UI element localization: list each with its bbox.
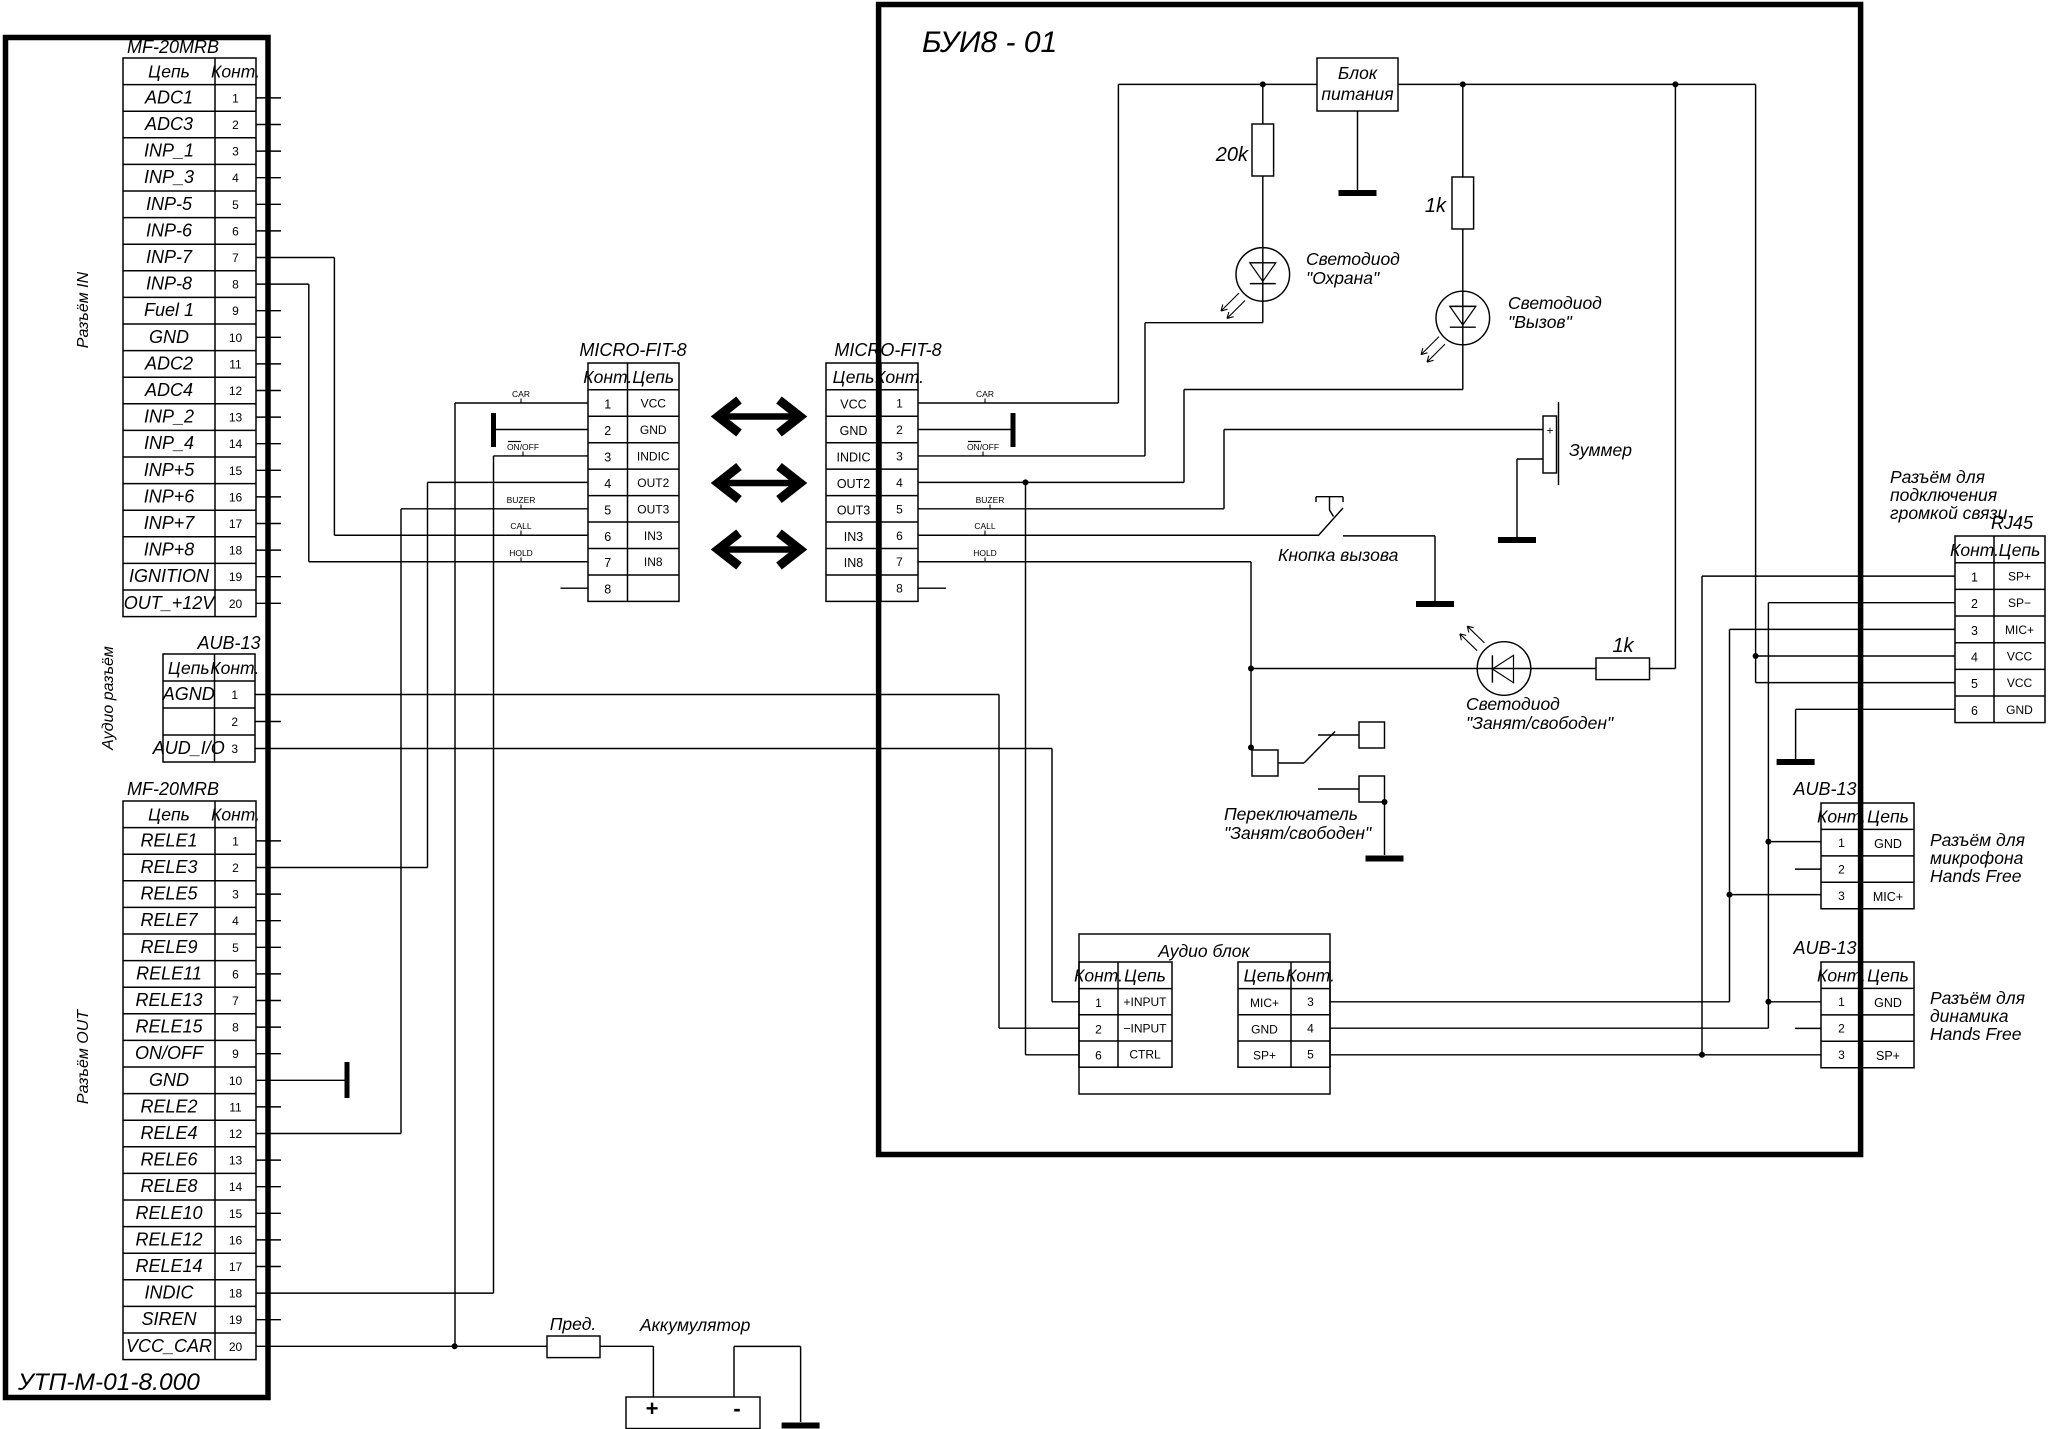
svg-text:GND: GND xyxy=(149,1070,189,1090)
svg-text:INP+6: INP+6 xyxy=(144,486,196,506)
svg-text:1: 1 xyxy=(1838,836,1845,850)
net SP-/GND: RJ45 pin2 - mic pin1 - speaker pin1 - audio block GND xyxy=(1330,603,1955,1028)
label BUZER (left) xyxy=(507,495,536,509)
svg-text:INDIC: INDIC xyxy=(836,450,870,464)
svg-text:11: 11 xyxy=(229,1100,242,1114)
wire CAR/VCC: pin1 right MICRO-FIT up to power rail xyxy=(918,84,1317,403)
stub pin8 right MICRO-FIT xyxy=(918,587,946,589)
net SP+: audio block pin5 - RJ45 pin1 - speaker pin3 xyxy=(1330,576,1955,1055)
wire OUT2: pin4 right MICRO-FIT to LED Вызов cathode xyxy=(918,345,1463,482)
rotated label Разъём IN xyxy=(75,271,92,348)
junction power rail / 1k Вызов xyxy=(1460,81,1466,87)
svg-text:8: 8 xyxy=(232,1021,239,1035)
ground for RJ45 GND xyxy=(1777,759,1815,765)
power rail from Блок питания to VCC vertical xyxy=(1398,83,1756,85)
svg-text:Конт.: Конт. xyxy=(875,367,924,387)
svg-text:1: 1 xyxy=(896,397,903,411)
svg-text:2: 2 xyxy=(896,423,903,437)
label HOLD (right) xyxy=(973,548,997,562)
svg-text:6: 6 xyxy=(232,224,239,238)
svg-text:INP+5: INP+5 xyxy=(144,460,196,480)
svg-text:RELE10: RELE10 xyxy=(135,1203,202,1223)
resistor 20k xyxy=(1215,84,1274,247)
svg-text:RELE13: RELE13 xyxy=(135,990,202,1010)
svg-text:Конт.: Конт. xyxy=(583,367,632,387)
svg-text:1: 1 xyxy=(1971,571,1978,585)
svg-text:7: 7 xyxy=(896,555,903,569)
svg-text:"Занят/свободен": "Занят/свободен" xyxy=(1224,823,1372,843)
junction HOLD / LED Занят wire xyxy=(1248,666,1254,672)
svg-text:Разъём для: Разъём для xyxy=(1930,830,2025,850)
svg-text:18: 18 xyxy=(229,544,243,558)
ground below call button xyxy=(1416,601,1454,607)
wire button to ground xyxy=(1343,536,1435,601)
svg-text:Зуммер: Зуммер xyxy=(1569,440,1632,460)
svg-text:CALL: CALL xyxy=(510,521,532,531)
svg-text:OUT2: OUT2 xyxy=(637,476,669,490)
svg-text:12: 12 xyxy=(229,384,243,398)
svg-text:7: 7 xyxy=(232,994,239,1008)
svg-text:5: 5 xyxy=(1307,1048,1314,1062)
label Светодиод Вызов xyxy=(1508,293,1602,332)
svg-text:CALL: CALL xyxy=(974,521,996,531)
pin stubs of MF-20MRB OUT connector xyxy=(256,841,281,1320)
svg-text:RELE8: RELE8 xyxy=(140,1176,197,1196)
wire BUZER: pin5 left MICRO-FIT down to RELE4 pin12 OUT xyxy=(256,509,588,1134)
svg-text:INP_4: INP_4 xyxy=(144,433,194,453)
wire ON/OFF: pin3 left MICRO-FIT down to INDIC pin18 OUT xyxy=(256,456,588,1293)
svg-text:CAR: CAR xyxy=(512,389,530,399)
svg-text:19: 19 xyxy=(229,570,243,584)
wire RJ45 pin6 GND to ground xyxy=(1796,709,1955,759)
svg-text:4: 4 xyxy=(1971,651,1978,665)
net VCC to RJ45 pins 4,5 xyxy=(1756,84,1955,682)
svg-text:2: 2 xyxy=(232,118,239,132)
svg-text:INP_1: INP_1 xyxy=(144,141,194,161)
svg-text:MICRO-FIT-8: MICRO-FIT-8 xyxy=(834,340,941,360)
svg-text:4: 4 xyxy=(604,477,611,491)
svg-text:RELE15: RELE15 xyxy=(135,1017,203,1037)
svg-text:CAR: CAR xyxy=(976,389,994,399)
svg-text:6: 6 xyxy=(604,530,611,544)
wire buzzer to ground xyxy=(1517,459,1543,537)
svg-text:INP-7: INP-7 xyxy=(146,247,193,267)
svg-text:SP+: SP+ xyxy=(2008,570,2031,584)
svg-text:Цепь: Цепь xyxy=(1999,540,2041,560)
svg-text:3: 3 xyxy=(604,450,611,464)
svg-text:OUT2: OUT2 xyxy=(837,477,870,491)
svg-text:9: 9 xyxy=(232,304,239,318)
svg-text:18: 18 xyxy=(229,1287,243,1301)
svg-text:GND: GND xyxy=(1251,1022,1278,1036)
junction OUT2/CTRL xyxy=(1023,479,1029,485)
audio block right table pins 3,4,5 xyxy=(1238,962,1335,1067)
svg-text:3: 3 xyxy=(1971,624,1978,638)
pin stubs of MF-20MRB IN connector xyxy=(256,98,281,603)
wire HOLD: pin7 left MICRO-FIT up to INP-8 pin8 IN xyxy=(256,284,588,562)
push-button Кнопка вызова xyxy=(1316,497,1343,536)
connector MICRO-FIT-8 (right), pins 1-8 xyxy=(826,340,942,601)
svg-text:УТП-М-01-8.000: УТП-М-01-8.000 xyxy=(17,1369,200,1396)
svg-text:SP+: SP+ xyxy=(1253,1049,1276,1063)
svg-text:Аудио блок: Аудио блок xyxy=(1157,941,1250,961)
svg-text:3: 3 xyxy=(1838,1048,1845,1062)
svg-text:20: 20 xyxy=(229,597,243,611)
svg-text:MF-20MRB: MF-20MRB xyxy=(127,37,219,57)
power supply Блок питания xyxy=(1317,58,1398,111)
junction SP- speaker pin1 xyxy=(1765,999,1771,1005)
svg-text:2: 2 xyxy=(232,861,239,875)
connector MF-20MRB (Разъём IN), pins 1-20 xyxy=(123,37,260,617)
wire LED Занят/свободен anode xyxy=(1251,668,1477,670)
svg-text:1: 1 xyxy=(231,688,238,702)
svg-text:Разъём для: Разъём для xyxy=(1930,988,2025,1008)
svg-text:12: 12 xyxy=(229,1127,243,1141)
label HOLD (left) xyxy=(509,548,533,562)
svg-text:2: 2 xyxy=(1971,597,1978,611)
svg-text:БУИ8 - 01: БУИ8 - 01 xyxy=(922,26,1057,59)
svg-text:ON/OFF: ON/OFF xyxy=(507,442,539,452)
svg-text:"Охрана": "Охрана" xyxy=(1306,268,1380,288)
svg-text:3: 3 xyxy=(232,888,239,902)
svg-text:IN3: IN3 xyxy=(844,530,864,544)
wire power block to ground xyxy=(1357,111,1359,190)
svg-text:5: 5 xyxy=(604,503,611,517)
terminal bar on GND pin2 (left MICRO-FIT) xyxy=(491,413,588,447)
rotated label Разъём OUT xyxy=(75,1009,92,1104)
wire fuse to battery + xyxy=(600,1346,653,1397)
svg-text:8: 8 xyxy=(232,278,239,292)
label ON/OFF (right) with overline xyxy=(967,442,999,457)
svg-text:Конт.: Конт. xyxy=(210,658,259,678)
svg-text:BUZER: BUZER xyxy=(507,495,536,505)
connector AUB-13 динамик Hands Free xyxy=(1792,938,1914,1068)
wire ON/OFF INDIC: pin3 right MICRO-FIT up to LED Охрана cathode xyxy=(918,301,1263,456)
svg-text:5: 5 xyxy=(232,198,239,212)
svg-text:INP-8: INP-8 xyxy=(146,274,192,294)
svg-text:ADC3: ADC3 xyxy=(144,114,193,134)
svg-text:Аккумулятор: Аккумулятор xyxy=(639,1315,751,1335)
junction power rail / 1k Занят xyxy=(1672,81,1678,87)
svg-text:RELE14: RELE14 xyxy=(135,1256,202,1276)
wire CALL: pin6 right MICRO-FIT to call button xyxy=(918,534,1318,536)
svg-text:6: 6 xyxy=(896,529,903,543)
svg-text:IGNITION: IGNITION xyxy=(129,566,210,586)
junction switch lower contact xyxy=(1382,799,1388,805)
svg-text:Конт.: Конт. xyxy=(1817,806,1866,826)
svg-text:микрофона: микрофона xyxy=(1930,848,2024,868)
label Разъём для микрофона Hands Free xyxy=(1930,830,2025,886)
svg-text:9: 9 xyxy=(232,1047,239,1061)
wire CAR: INP... VCC pin1 left MICRO-FIT to vertical xyxy=(455,403,588,1346)
label CALL (left) xyxy=(510,521,532,536)
svg-text:Конт.: Конт. xyxy=(1074,966,1123,986)
wire BUZER: pin5 right MICRO-FIT to buzzer + xyxy=(918,430,1543,509)
ground for battery xyxy=(782,1423,820,1429)
svg-text:MICRO-FIT-8: MICRO-FIT-8 xyxy=(579,340,686,360)
wire battery - to ground xyxy=(734,1346,801,1422)
svg-text:15: 15 xyxy=(229,1207,243,1221)
stub pin2 of speaker AUB-13 xyxy=(1795,1027,1821,1029)
svg-text:Конт.: Конт. xyxy=(1286,966,1335,986)
svg-text:2: 2 xyxy=(604,424,611,438)
svg-text:INP_3: INP_3 xyxy=(144,167,194,187)
svg-text:OUT3: OUT3 xyxy=(837,503,870,517)
svg-text:6: 6 xyxy=(232,967,239,981)
svg-text:10: 10 xyxy=(229,331,243,345)
svg-text:питания: питания xyxy=(1321,84,1393,104)
svg-text:3: 3 xyxy=(1307,995,1314,1009)
svg-text:RELE12: RELE12 xyxy=(135,1229,202,1249)
label Светодиод Охрана xyxy=(1306,249,1400,288)
svg-text:SP−: SP− xyxy=(2008,596,2031,610)
svg-text:HOLD: HOLD xyxy=(973,548,997,558)
label Зуммер xyxy=(1569,440,1632,460)
svg-text:GND: GND xyxy=(2006,703,2033,717)
connector MF-20MRB (Разъём OUT), pins 1-20 xyxy=(123,779,260,1360)
svg-text:5: 5 xyxy=(896,502,903,516)
battery Аккумулятор xyxy=(626,1315,760,1429)
svg-text:CTRL: CTRL xyxy=(1129,1048,1161,1062)
net MIC+: RJ45 pin3 - mic pin3 - audio block MIC+ xyxy=(1330,629,1955,1001)
svg-text:RELE9: RELE9 xyxy=(140,937,197,957)
svg-text:4: 4 xyxy=(232,914,239,928)
svg-text:SIREN: SIREN xyxy=(141,1309,197,1329)
stub pin2 of microphone AUB-13 xyxy=(1795,868,1821,870)
svg-text:17: 17 xyxy=(229,517,243,531)
svg-text:8: 8 xyxy=(896,582,903,596)
svg-text:19: 19 xyxy=(229,1313,243,1327)
svg-text:6: 6 xyxy=(1095,1049,1102,1063)
svg-text:Цепь: Цепь xyxy=(148,805,190,825)
svg-text:INDIC: INDIC xyxy=(145,1283,195,1303)
svg-text:GND: GND xyxy=(640,423,667,437)
svg-text:4: 4 xyxy=(232,171,239,185)
svg-text:5: 5 xyxy=(232,941,239,955)
svg-text:8: 8 xyxy=(604,583,611,597)
svg-text:Конт.: Конт. xyxy=(211,805,260,825)
fuse Пред. xyxy=(547,1314,600,1358)
ground below switch xyxy=(1366,856,1404,862)
svg-text:Аудио разъём: Аудио разъём xyxy=(100,646,117,751)
svg-text:ON/OFF: ON/OFF xyxy=(135,1043,204,1063)
svg-text:"Вызов": "Вызов" xyxy=(1508,312,1573,332)
svg-text:11: 11 xyxy=(229,357,242,371)
svg-text:Цепь: Цепь xyxy=(1244,966,1286,986)
svg-text:MIC+: MIC+ xyxy=(2005,623,2034,637)
svg-text:VCC: VCC xyxy=(840,398,866,412)
svg-text:7: 7 xyxy=(232,251,239,265)
svg-text:BUZER: BUZER xyxy=(976,495,1005,505)
audio block left table pins 1,2,6 xyxy=(1074,962,1172,1067)
audio block Аудио блок xyxy=(1079,934,1330,1094)
net VCC_CAR: OUT pin20 - fuse - battery xyxy=(256,1345,547,1347)
svg-text:1: 1 xyxy=(1095,996,1102,1010)
svg-text:20: 20 xyxy=(229,1340,243,1354)
wire CALL: pin6 left MICRO-FIT up to INP-7 pin7 IN xyxy=(256,258,588,536)
svg-text:RELE6: RELE6 xyxy=(140,1150,198,1170)
svg-text:Цепь: Цепь xyxy=(632,367,674,387)
label Кнопка вызова xyxy=(1278,545,1399,565)
svg-text:Конт.: Конт. xyxy=(211,62,260,82)
svg-text:IN3: IN3 xyxy=(644,529,663,543)
svg-text:3: 3 xyxy=(896,449,903,463)
svg-text:VCC: VCC xyxy=(641,397,667,411)
svg-text:RELE2: RELE2 xyxy=(140,1096,197,1116)
svg-text:4: 4 xyxy=(1307,1021,1314,1035)
svg-text:OUT3: OUT3 xyxy=(637,502,669,516)
junction power rail / 20k xyxy=(1260,81,1266,87)
svg-text:громкой связи: громкой связи xyxy=(1890,503,2008,523)
svg-text:GND: GND xyxy=(840,424,868,438)
svg-text:3: 3 xyxy=(231,742,238,756)
svg-text:14: 14 xyxy=(229,437,243,451)
LED Светодиод Охрана xyxy=(1221,248,1290,319)
svg-text:VCC_CAR: VCC_CAR xyxy=(126,1336,212,1356)
svg-text:Переключатель: Переключатель xyxy=(1224,804,1358,824)
LED Светодиод Занят/свободен xyxy=(1460,626,1531,695)
label Светодиод Занят/свободен xyxy=(1466,694,1614,733)
rotated label Аудио разъём xyxy=(100,646,117,751)
switch Переключатель Занят/свободен xyxy=(1252,722,1385,802)
wire switch to ground xyxy=(1384,802,1386,855)
svg-text:AUD_I/O: AUD_I/O xyxy=(152,738,225,758)
svg-text:1: 1 xyxy=(1838,995,1845,1009)
svg-text:+: + xyxy=(1547,426,1554,438)
svg-text:13: 13 xyxy=(229,1154,243,1168)
svg-text:Цепь: Цепь xyxy=(148,62,190,82)
connector MICRO-FIT-8 (left), pins 1-8 xyxy=(579,340,686,601)
svg-text:6: 6 xyxy=(1971,704,1978,718)
svg-text:Конт.: Конт. xyxy=(1950,540,1999,560)
svg-text:IN8: IN8 xyxy=(644,555,663,569)
junction VCC_CAR / CAR vertical xyxy=(452,1343,458,1349)
svg-text:2: 2 xyxy=(1095,1022,1102,1036)
svg-text:AGND: AGND xyxy=(162,684,215,704)
svg-text:VCC: VCC xyxy=(2007,650,2033,664)
svg-text:Цепь: Цепь xyxy=(1867,965,1909,985)
svg-text:14: 14 xyxy=(229,1180,243,1194)
buzzer Зуммер xyxy=(1543,402,1559,485)
terminal bar on GND pin2 (right MICRO-FIT) xyxy=(918,413,1016,447)
junction VCC RJ45 pin4 xyxy=(1753,653,1759,659)
svg-text:13: 13 xyxy=(229,411,243,425)
svg-text:Цепь: Цепь xyxy=(1867,806,1909,826)
svg-text:1k: 1k xyxy=(1425,195,1447,217)
cable arrows between MICRO-FIT-8 connectors xyxy=(718,400,800,566)
svg-text:ADC1: ADC1 xyxy=(144,87,193,107)
svg-text:RELE3: RELE3 xyxy=(140,857,197,877)
svg-text:AUB-13: AUB-13 xyxy=(1792,938,1856,958)
junction HOLD / switch xyxy=(1248,745,1254,751)
svg-text:INP-6: INP-6 xyxy=(146,220,193,240)
svg-text:−INPUT: −INPUT xyxy=(1123,1021,1167,1035)
stub pin 2 of audio AUB-13 xyxy=(255,721,281,723)
svg-text:INP+7: INP+7 xyxy=(144,513,196,533)
LED Светодиод Вызов xyxy=(1421,291,1490,362)
svg-text:GND: GND xyxy=(1874,996,1902,1010)
resistor 1k (Занят/свободен) xyxy=(1531,84,1676,679)
svg-text:7: 7 xyxy=(604,556,611,570)
svg-text:INP-5: INP-5 xyxy=(146,194,193,214)
label Разъём для подключения громкой связи xyxy=(1890,467,2008,523)
svg-text:Цепь: Цепь xyxy=(168,658,210,678)
svg-text:+INPUT: +INPUT xyxy=(1123,995,1167,1009)
svg-text:17: 17 xyxy=(229,1260,243,1274)
svg-text:2: 2 xyxy=(231,715,238,729)
svg-text:Светодиод: Светодиод xyxy=(1306,249,1400,269)
wire CTRL: audio block pin6 to OUT2 junction xyxy=(1026,482,1080,1054)
label CAR (left) xyxy=(512,389,530,403)
label CAR (right) xyxy=(976,389,994,403)
wire HOLD: pin7 right MICRO-FIT down to LED/switch net xyxy=(918,562,1251,750)
svg-text:AUB-13: AUB-13 xyxy=(1792,779,1856,799)
svg-text:MIC+: MIC+ xyxy=(1873,890,1903,904)
svg-text:INP+8: INP+8 xyxy=(144,540,195,560)
svg-text:MF-20MRB: MF-20MRB xyxy=(127,779,219,799)
svg-text:-: - xyxy=(733,1396,740,1421)
svg-text:GND: GND xyxy=(149,327,189,347)
svg-text:15: 15 xyxy=(229,464,243,478)
svg-text:HOLD: HOLD xyxy=(509,548,533,558)
stub pin8 left MICRO-FIT xyxy=(561,587,589,589)
svg-text:INDIC: INDIC xyxy=(637,449,670,463)
svg-text:3: 3 xyxy=(232,145,239,159)
svg-text:Разъём для: Разъём для xyxy=(1890,467,1985,487)
svg-text:1: 1 xyxy=(232,834,239,848)
svg-text:5: 5 xyxy=(1971,677,1978,691)
svg-text:RELE4: RELE4 xyxy=(140,1123,197,1143)
wire OUT2: pin4 left MICRO-FIT down to RELE3 pin2 OUT xyxy=(256,482,588,867)
svg-text:INP_2: INP_2 xyxy=(144,407,194,427)
svg-text:+: + xyxy=(646,1396,659,1421)
svg-text:20k: 20k xyxy=(1215,144,1249,166)
label Переключатель Занят/свободен xyxy=(1224,804,1372,843)
label CALL (right) xyxy=(974,521,996,536)
enclosure box УТП-М-01-8.000 (left unit) xyxy=(6,38,269,1398)
svg-text:динамика: динамика xyxy=(1930,1006,2009,1026)
svg-text:Блок: Блок xyxy=(1338,63,1378,83)
svg-text:10: 10 xyxy=(229,1074,243,1088)
enclosure box БУИ8 - 01 (right unit) xyxy=(879,5,1861,1155)
connector AUB-13 (Аудио разъём) AGND / AUD_I/O xyxy=(152,633,261,762)
svg-text:RELE5: RELE5 xyxy=(140,884,198,904)
svg-text:Пред.: Пред. xyxy=(550,1314,596,1334)
label BUZER (right) xyxy=(976,495,1005,509)
svg-text:RELE7: RELE7 xyxy=(140,910,198,930)
svg-text:ADC4: ADC4 xyxy=(144,380,193,400)
svg-text:1: 1 xyxy=(604,398,611,412)
svg-text:SP+: SP+ xyxy=(1876,1049,1900,1063)
svg-text:Hands Free: Hands Free xyxy=(1930,866,2022,886)
svg-text:AUB-13: AUB-13 xyxy=(196,633,260,653)
svg-text:Кнопка вызова: Кнопка вызова xyxy=(1278,545,1399,565)
svg-text:1: 1 xyxy=(232,91,239,105)
label ON/OFF (left) with overline xyxy=(507,442,539,457)
svg-text:ADC2: ADC2 xyxy=(144,353,193,373)
wire AUD_I/O: AUB-13 pin3 to audio block +INPUT xyxy=(255,749,1079,1002)
svg-text:2: 2 xyxy=(1838,863,1845,877)
svg-text:MIC+: MIC+ xyxy=(1250,996,1279,1010)
svg-text:3: 3 xyxy=(1838,889,1845,903)
svg-text:16: 16 xyxy=(229,490,243,504)
ground below buzzer xyxy=(1498,537,1536,543)
svg-text:Разъём OUT: Разъём OUT xyxy=(75,1009,92,1104)
svg-text:Разъём IN: Разъём IN xyxy=(75,271,92,348)
junction SP+ xyxy=(1699,1052,1705,1058)
svg-text:Hands Free: Hands Free xyxy=(1930,1024,2022,1044)
resistor 1k (Вызов) xyxy=(1425,84,1474,291)
